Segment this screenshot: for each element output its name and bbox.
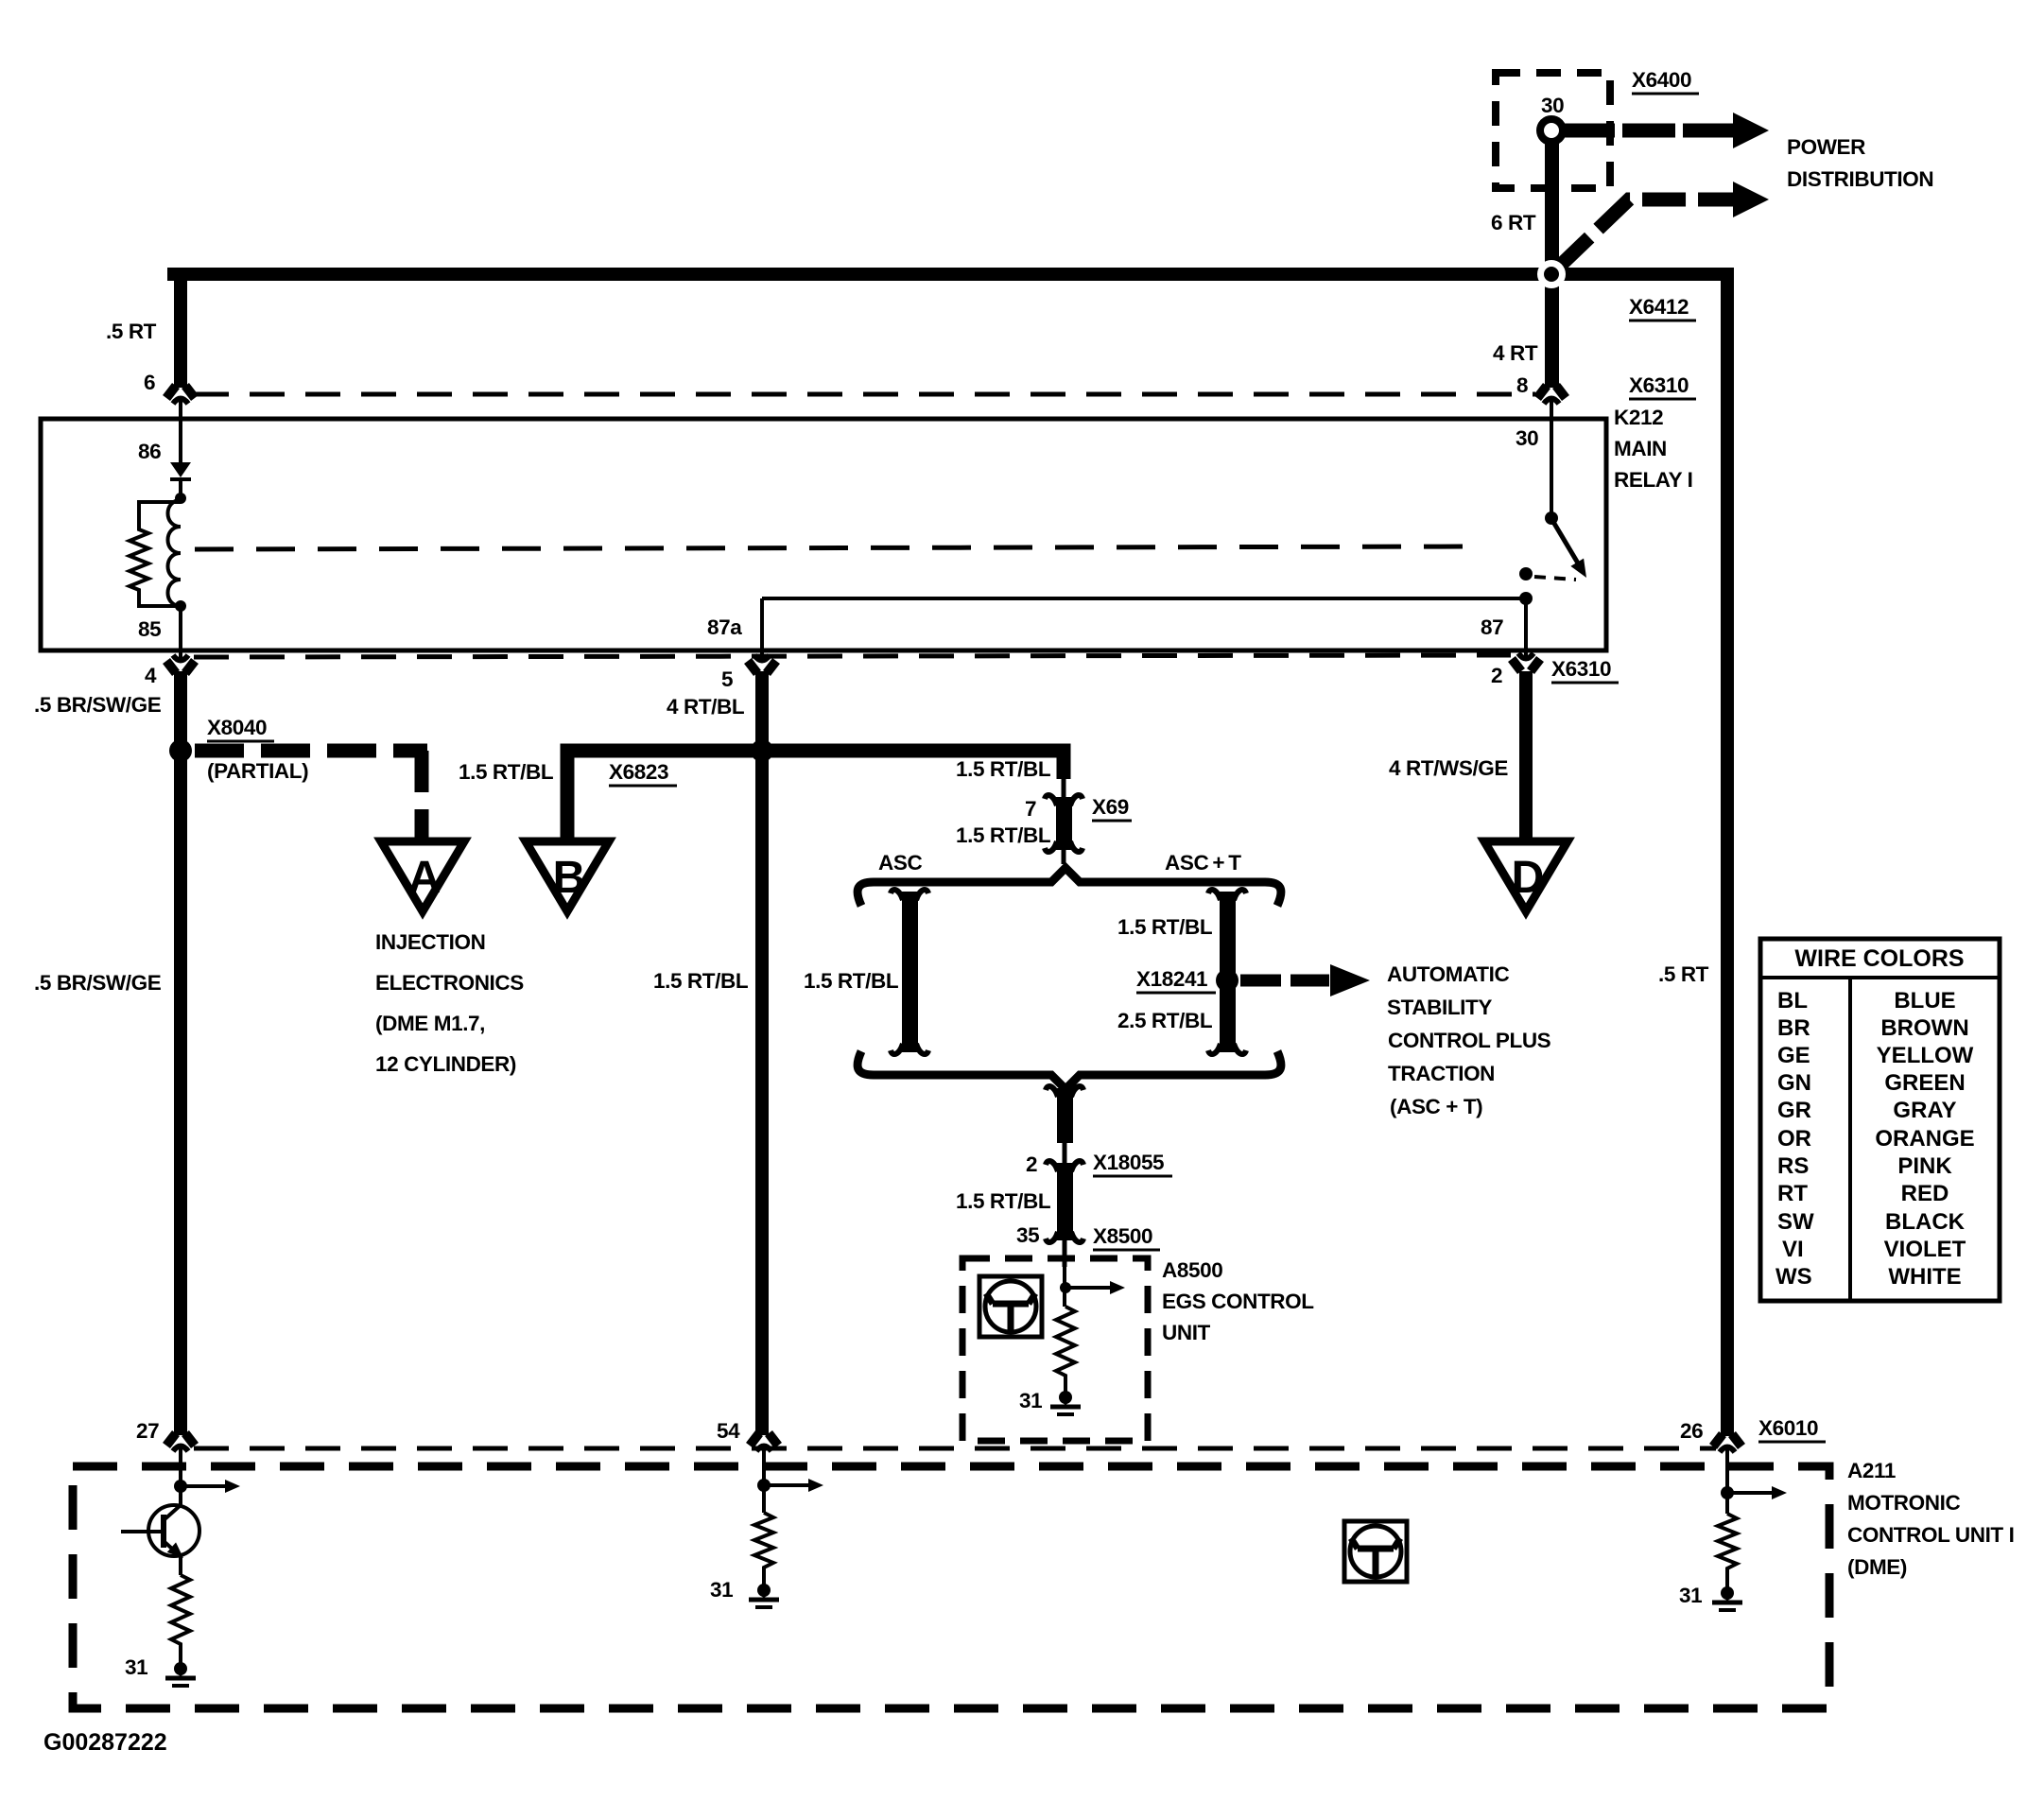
arrow pin 27 internal	[181, 1480, 240, 1493]
svg-text:GN: GN	[1777, 1070, 1811, 1096]
wire pin 27 internal	[179, 1454, 182, 1505]
svg-text:RS: RS	[1777, 1153, 1809, 1179]
wire pin 54 internal	[762, 1454, 766, 1513]
wire 87a horizontal	[762, 597, 1526, 600]
wire pin 85	[179, 606, 182, 658]
svg-text:EGS CONTROL: EGS CONTROL	[1162, 1290, 1314, 1313]
svg-text:4 RT/BL: 4 RT/BL	[667, 695, 745, 719]
ground pin 31 (26 branch)	[1712, 1583, 1742, 1610]
svg-text:D: D	[1512, 853, 1545, 903]
wire X8040 dashed drop to A	[415, 751, 429, 840]
triangle A	[381, 841, 464, 911]
svg-text:RT: RT	[1777, 1181, 1808, 1206]
wire pin 26 internal	[1725, 1452, 1729, 1514]
wire dashed arrow to power distribution (diagonal)	[1558, 199, 1733, 268]
ground pin 31 (54 branch)	[749, 1580, 779, 1607]
svg-text:(PARTIAL): (PARTIAL)	[207, 759, 308, 783]
svg-text:31: 31	[710, 1578, 733, 1602]
resistor pin 54	[754, 1513, 773, 1582]
node coil bottom	[175, 600, 186, 612]
relay coil K212	[168, 500, 182, 606]
wire 4 RT/BL bus vertical	[755, 671, 769, 1435]
svg-text:31: 31	[125, 1655, 147, 1679]
svg-text:BL: BL	[1777, 988, 1808, 1013]
svg-text:1.5 RT/BL: 1.5 RT/BL	[956, 1189, 1051, 1213]
node 30 terminal circle	[1540, 119, 1563, 142]
resistor pin 26	[1718, 1514, 1737, 1585]
connector claw pin 26	[1713, 1434, 1741, 1463]
node 87/87a junction	[1519, 592, 1533, 605]
right bus vertical .5 RT	[1721, 268, 1734, 1436]
connector/wire ASC branch terminal bar	[902, 892, 918, 1052]
svg-text:VIOLET: VIOLET	[1884, 1237, 1966, 1262]
diode (relay suppression)	[170, 462, 191, 477]
svg-text:86: 86	[138, 440, 161, 463]
wire pin 30 inside relay	[1550, 407, 1553, 513]
svg-text:1.5 RT/BL: 1.5 RT/BL	[653, 969, 749, 993]
svg-text:OR: OR	[1777, 1126, 1811, 1152]
svg-text:X8040: X8040	[207, 716, 267, 739]
connector claw pin 27	[166, 1433, 195, 1462]
motor symbol A211	[1344, 1521, 1407, 1582]
svg-text:GR: GR	[1777, 1098, 1811, 1123]
arrow EGS internal	[1065, 1281, 1125, 1294]
node pin 54	[757, 1479, 771, 1492]
wire 4 RT bus to pin 8	[1545, 274, 1559, 388]
svg-text:WIRE COLORS: WIRE COLORS	[1794, 945, 1964, 972]
svg-text:(DME): (DME)	[1847, 1555, 1907, 1579]
connector/wire bar below brace	[1057, 1088, 1073, 1143]
svg-text:X6400: X6400	[1632, 68, 1691, 92]
svg-text:ORANGE: ORANGE	[1875, 1126, 1974, 1152]
svg-text:4 RT: 4 RT	[1493, 341, 1538, 365]
svg-text:12 CYLINDER): 12 CYLINDER)	[375, 1052, 516, 1076]
svg-text:TRACTION: TRACTION	[1388, 1062, 1495, 1085]
node coil top	[175, 493, 186, 504]
wire 1.5 RT/BL to B (corner)	[567, 751, 762, 841]
svg-text:2.5 RT/BL: 2.5 RT/BL	[1117, 1009, 1213, 1032]
svg-text:X6310: X6310	[1551, 657, 1611, 681]
node X8040 junction	[169, 739, 192, 762]
resistor parallel to coil	[130, 502, 181, 606]
svg-text:BLUE: BLUE	[1894, 988, 1955, 1013]
svg-text:INJECTION: INJECTION	[375, 930, 485, 954]
svg-text:ASC: ASC	[878, 851, 922, 875]
svg-text:1.5 RT/BL: 1.5 RT/BL	[956, 757, 1051, 781]
svg-text:2: 2	[1026, 1152, 1037, 1176]
relay K212 box	[41, 419, 1606, 650]
svg-text:.5 BR/SW/GE: .5 BR/SW/GE	[34, 693, 162, 717]
svg-text:8: 8	[1516, 373, 1528, 397]
junction X6412 node circle	[1537, 260, 1566, 288]
wire dashed arrow to power distribution (top)	[1565, 124, 1615, 138]
svg-text:.5 RT: .5 RT	[1658, 962, 1709, 986]
connector claw pin 8	[1537, 386, 1566, 414]
svg-text:6 RT: 6 RT	[1491, 211, 1536, 234]
svg-text:BR: BR	[1777, 1015, 1810, 1041]
svg-text:CONTROL PLUS: CONTROL PLUS	[1388, 1029, 1551, 1052]
svg-text:ASC + T: ASC + T	[1165, 851, 1241, 875]
svg-text:2: 2	[1491, 664, 1502, 687]
switch arm with arrowhead	[1553, 522, 1580, 566]
bracket bottom brace	[857, 1051, 1281, 1089]
svg-text:PINK: PINK	[1897, 1153, 1952, 1179]
svg-text:1.5 RT/BL: 1.5 RT/BL	[1117, 915, 1213, 939]
svg-text:85: 85	[138, 617, 161, 641]
connector X18055 / X8500 terminal bar	[1057, 1163, 1073, 1240]
svg-text:GRAY: GRAY	[1893, 1098, 1956, 1123]
wire dashed arrow to ASC+T unit	[1240, 975, 1281, 987]
svg-text:X69: X69	[1092, 795, 1129, 819]
svg-text:31: 31	[1019, 1389, 1042, 1412]
triangle D	[1484, 841, 1568, 911]
contact 87 node	[1519, 567, 1533, 580]
svg-text:STABILITY: STABILITY	[1387, 996, 1492, 1019]
svg-text:B: B	[553, 853, 586, 903]
connector claw pin 54	[750, 1433, 778, 1462]
svg-text:WS: WS	[1776, 1264, 1812, 1290]
wire 87a drop to pin 5	[760, 598, 764, 658]
svg-text:BROWN: BROWN	[1880, 1015, 1968, 1041]
svg-text:X6310: X6310	[1629, 373, 1689, 397]
svg-text:54: 54	[717, 1419, 740, 1443]
connector claw pin 6	[166, 386, 195, 414]
resistor pin 27	[171, 1575, 190, 1660]
wire 1.5 RT/BL bus to X69 corner	[762, 751, 1064, 779]
wire X8040 dashed horizontal (partial)	[195, 744, 427, 758]
node EGS	[1060, 1282, 1071, 1293]
ground EGS pin 31	[1050, 1387, 1081, 1414]
svg-text:VI: VI	[1782, 1237, 1804, 1262]
transistor Q (output stage)	[148, 1505, 199, 1556]
svg-text:.5 RT: .5 RT	[106, 320, 157, 343]
svg-text:CONTROL UNIT I: CONTROL UNIT I	[1847, 1523, 2014, 1547]
wire 6 RT vertical from node 30 to bus	[1545, 140, 1559, 274]
svg-text:A8500: A8500	[1162, 1258, 1222, 1282]
wire pin 86	[179, 407, 182, 462]
svg-text:UNIT: UNIT	[1162, 1321, 1211, 1344]
arrow pin 26 internal	[1727, 1486, 1787, 1499]
svg-text:A211: A211	[1847, 1459, 1896, 1482]
node X18241	[1216, 969, 1239, 992]
svg-text:1.5 RT/BL: 1.5 RT/BL	[956, 823, 1051, 847]
svg-text:YELLOW: YELLOW	[1877, 1043, 1974, 1068]
connector line X6310 lower (dashed)	[194, 655, 1511, 657]
svg-text:GE: GE	[1777, 1043, 1810, 1068]
svg-text:26: 26	[1680, 1419, 1703, 1443]
svg-text:4 RT/WS/GE: 4 RT/WS/GE	[1389, 756, 1508, 780]
svg-text:GREEN: GREEN	[1884, 1070, 1965, 1096]
svg-text:ELECTRONICS: ELECTRONICS	[375, 971, 524, 995]
svg-text:87: 87	[1481, 615, 1503, 639]
node X6823 junction	[751, 739, 773, 762]
svg-text:87a: 87a	[707, 615, 742, 639]
wire 87 drop to pin 2	[1524, 598, 1528, 656]
svg-text:A: A	[408, 853, 442, 903]
connector line X6310 upper (dashed)	[194, 392, 1535, 397]
svg-text:POWER: POWER	[1787, 135, 1865, 159]
connector/wire ASC+T branch terminal bar	[1220, 892, 1236, 1052]
bracket ASC / ASC+T (top brace)	[857, 868, 1281, 906]
svg-text:DISTRIBUTION: DISTRIBUTION	[1787, 167, 1933, 191]
svg-text:4: 4	[145, 664, 157, 687]
contact dashed link	[1534, 577, 1576, 580]
svg-text:(ASC + T): (ASC + T)	[1390, 1095, 1482, 1118]
svg-text:30: 30	[1516, 426, 1538, 450]
connector line X6010 (dashed)	[194, 1447, 1716, 1451]
mechanical link (dashed)	[195, 546, 1478, 549]
wire pin 35 into EGS	[1063, 1265, 1066, 1307]
svg-text:X6412: X6412	[1629, 295, 1689, 319]
node pin 26	[1721, 1486, 1734, 1499]
main top bus .5 RT / 4 RT	[167, 268, 1734, 281]
left drop wire .5 RT	[174, 268, 187, 388]
resistor EGS	[1056, 1307, 1075, 1389]
svg-text:BLACK: BLACK	[1885, 1209, 1966, 1235]
svg-text:X6010: X6010	[1758, 1416, 1818, 1440]
connector X69 terminal bar	[1062, 775, 1066, 802]
svg-text:MAIN: MAIN	[1614, 437, 1667, 460]
connector claw pin 5	[748, 645, 776, 673]
svg-text:6: 6	[144, 371, 155, 394]
connector claw pin 2	[1512, 643, 1540, 671]
svg-text:RELAY I: RELAY I	[1614, 468, 1693, 492]
svg-text:RED: RED	[1901, 1181, 1949, 1206]
A8500 EGS box (dashed)	[962, 1258, 1148, 1441]
svg-text:X6823: X6823	[609, 760, 668, 784]
svg-text:MOTRONIC: MOTRONIC	[1847, 1491, 1960, 1515]
svg-text:1.5 RT/BL: 1.5 RT/BL	[804, 969, 899, 993]
motor symbol EGS	[979, 1276, 1042, 1337]
svg-text:(DME M1.7,: (DME M1.7,	[375, 1012, 485, 1035]
svg-text:X18055: X18055	[1093, 1151, 1164, 1174]
svg-text:K212: K212	[1614, 406, 1663, 429]
svg-text:AUTOMATIC: AUTOMATIC	[1387, 962, 1509, 986]
ground pin 31 (27 branch)	[165, 1658, 196, 1686]
connector claw pin 4	[166, 645, 195, 673]
node pin 27	[174, 1480, 187, 1493]
arrow pin 54 internal	[764, 1479, 823, 1492]
wire emitter down	[179, 1556, 182, 1575]
svg-text:G00287222: G00287222	[43, 1729, 167, 1756]
svg-text:35: 35	[1016, 1223, 1039, 1247]
connector X6400 dashed box	[1496, 73, 1610, 188]
svg-text:X18241: X18241	[1136, 967, 1207, 991]
triangle B	[526, 841, 609, 911]
wire .5 BR/SW/GE left vertical	[174, 671, 187, 1435]
svg-text:5: 5	[721, 667, 733, 691]
switch pivot node	[1545, 511, 1558, 525]
svg-text:27: 27	[136, 1419, 159, 1443]
svg-text:31: 31	[1679, 1584, 1702, 1607]
svg-text:1.5 RT/BL: 1.5 RT/BL	[459, 760, 554, 784]
svg-text:WHITE: WHITE	[1888, 1264, 1961, 1290]
svg-text:.5 BR/SW/GE: .5 BR/SW/GE	[34, 971, 162, 995]
A211 Motronic box (dashed)	[73, 1466, 1829, 1708]
svg-text:SW: SW	[1777, 1209, 1814, 1235]
svg-text:7: 7	[1025, 797, 1036, 821]
svg-text:30: 30	[1541, 94, 1564, 117]
wire 4 RT/WS/GE vertical	[1519, 671, 1533, 843]
svg-text:X8500: X8500	[1093, 1224, 1152, 1248]
